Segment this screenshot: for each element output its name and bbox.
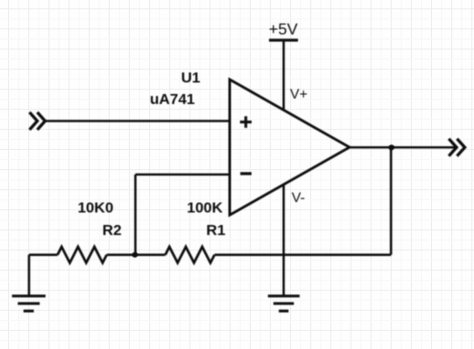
svg-text:V+: V+ bbox=[290, 86, 308, 102]
svg-text:10K0: 10K0 bbox=[78, 200, 114, 217]
svg-text:+5V: +5V bbox=[269, 21, 298, 38]
svg-text:U1: U1 bbox=[181, 70, 200, 87]
svg-text:R2: R2 bbox=[102, 222, 121, 239]
svg-text:V-: V- bbox=[292, 189, 306, 205]
svg-text:100K: 100K bbox=[187, 200, 223, 217]
svg-text:R1: R1 bbox=[206, 222, 225, 239]
svg-text:uA741: uA741 bbox=[150, 91, 195, 108]
